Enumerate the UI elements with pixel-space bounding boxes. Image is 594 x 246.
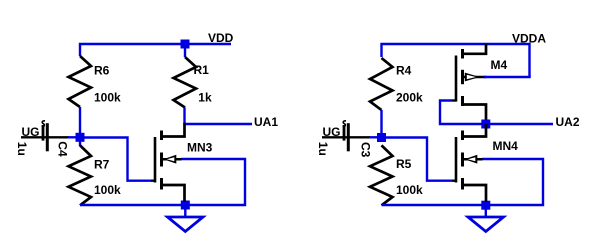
wire R1 bottom to node UA1 [183, 108, 185, 125]
resistor R5 [370, 145, 393, 205]
transistor MN3 bulk arrow (hollow, points left) [163, 155, 176, 164]
resistor R7 value label [94, 183, 121, 197]
wire ground rail right circuit [382, 159, 544, 205]
transistor MN3 gate pin stub [151, 179, 156, 181]
transistor M4 name label [491, 58, 508, 72]
node G2 junction dot (C3/R4/R5/gate) [377, 133, 386, 142]
capacitor C4 sine squiggle marker [42, 121, 45, 127]
wire M4 gate to node UA2 [440, 101, 482, 125]
svg-text:R6: R6 [94, 64, 110, 78]
transistor MN4 gate bar [455, 137, 458, 183]
transistor M4 gate pin stub [452, 99, 457, 101]
transistor M4 channel bar [461, 49, 464, 106]
transistor M4 bulk arrow (hollow, points right) [465, 73, 480, 82]
transistor MN4 bulk arrow (hollow, points left) [464, 155, 477, 164]
node UA2 label [556, 115, 580, 129]
wire node G1 to MN3 gate [84, 138, 151, 181]
svg-text:R5: R5 [396, 157, 412, 171]
capacitor C3 short plate bar [343, 125, 346, 141]
ground symbol left triangle [168, 217, 204, 232]
transistor M4 bulk lead [463, 76, 487, 79]
transistor MN3 channel bar [160, 131, 163, 190]
wire R4 bottom to node G2 [380, 110, 382, 142]
svg-text:R4: R4 [396, 64, 412, 78]
transistor MN3 source lead [162, 185, 185, 202]
resistor R7 name label [94, 158, 110, 172]
resistor R6 [69, 56, 92, 107]
resistor R4 name label [396, 64, 412, 78]
node ground junction dot left [181, 201, 190, 210]
transistor MN4 bulk lead [463, 158, 483, 161]
node VDD label [208, 31, 234, 45]
resistor R1 name label [194, 63, 210, 77]
svg-text:R7: R7 [94, 158, 110, 172]
transistor MN4 source lead [463, 185, 487, 202]
ground symbol right triangle [468, 217, 504, 232]
svg-text:200k: 200k [396, 91, 423, 105]
transistor M4 gate bar [455, 56, 458, 102]
svg-text:1u: 1u [15, 142, 29, 156]
wire VDD top rail left circuit [80, 44, 231, 56]
svg-text:UA1: UA1 [254, 115, 278, 129]
ground symbol left stem [184, 205, 186, 216]
node UA2 junction dot [481, 120, 490, 129]
node UG label [22, 125, 40, 139]
svg-text:VDDA: VDDA [512, 32, 546, 46]
transistor M4 source lead [463, 44, 487, 54]
transistor MN3 bulk lead [162, 158, 182, 161]
svg-text:C3: C3 [359, 142, 373, 158]
wire node UA2 output [486, 123, 553, 125]
wire R6 bottom to node G1 [79, 107, 81, 142]
transistor MN4 name label [493, 139, 519, 153]
node ground junction dot right [481, 201, 490, 210]
resistor R4 value label [396, 91, 423, 105]
node UA1 label [254, 115, 278, 129]
capacitor C4 short plate bar [42, 125, 45, 141]
svg-text:UG: UG [323, 125, 341, 139]
wire ground rail left circuit [80, 159, 245, 205]
capacitor C3 value label 1u (rotated) [316, 142, 330, 156]
transistor MN3 gate bar [154, 137, 157, 183]
wire node UA1 output [185, 123, 253, 125]
node UG input lead under label [21, 136, 69, 138]
transistor MN4 drain lead [463, 124, 487, 137]
resistor R6 name label [94, 64, 110, 78]
transistor MN4 gate pin stub [452, 179, 457, 181]
transistor M4 drain lead [463, 105, 487, 122]
svg-text:1u: 1u [316, 142, 330, 156]
svg-text:R1: R1 [194, 63, 210, 77]
svg-text:VDD: VDD [208, 31, 234, 45]
svg-text:UG: UG [22, 125, 40, 139]
node G1 junction dot (C4/R6/R7/gate) [76, 133, 85, 142]
resistor R1 value label [198, 91, 212, 105]
transistor MN3 name label [187, 141, 213, 155]
resistor R4 [370, 58, 393, 110]
svg-text:C4: C4 [56, 141, 70, 157]
svg-text:UA2: UA2 [556, 115, 580, 129]
capacitor C3 sine squiggle marker [343, 121, 346, 127]
wire M4 bulk to VDDA rail [484, 76, 531, 78]
wire C4 lead to node G1 [68, 136, 78, 138]
svg-text:MN3: MN3 [187, 141, 213, 155]
transistor MN4 channel bar [461, 131, 464, 190]
node UG2 label [323, 125, 341, 139]
svg-text:100k: 100k [396, 183, 423, 197]
resistor R5 value label [396, 183, 423, 197]
wire VDDA top rail right circuit [382, 44, 530, 77]
capacitor C4 name label (rotated) [56, 141, 70, 157]
resistor R7 [69, 145, 92, 205]
wire node G1 down to R7 [79, 142, 81, 147]
resistor R1 [174, 57, 197, 108]
node UG2 input lead under label [322, 136, 370, 138]
wire VDD to R1 [184, 44, 186, 57]
wire node G2 to MN4 gate [386, 138, 453, 181]
node VDD junction dot [181, 40, 190, 49]
svg-text:100k: 100k [94, 183, 121, 197]
svg-text:M4: M4 [491, 58, 508, 72]
capacitor C3 tall plate bar [347, 123, 350, 151]
capacitor C3 name label (rotated) [359, 142, 373, 158]
resistor R5 name label [396, 157, 412, 171]
svg-text:1k: 1k [198, 91, 212, 105]
svg-text:100k: 100k [94, 91, 121, 105]
node VDDA label [512, 32, 546, 46]
resistor R6 value label [94, 91, 121, 105]
transistor MN3 drain lead [162, 123, 185, 137]
wire C3 lead to node G2 [369, 136, 380, 138]
capacitor C4 tall plate bar [46, 123, 49, 151]
ground symbol right stem [485, 205, 487, 216]
svg-text:MN4: MN4 [493, 139, 519, 153]
capacitor C4 value label 1u (rotated) [15, 142, 29, 156]
